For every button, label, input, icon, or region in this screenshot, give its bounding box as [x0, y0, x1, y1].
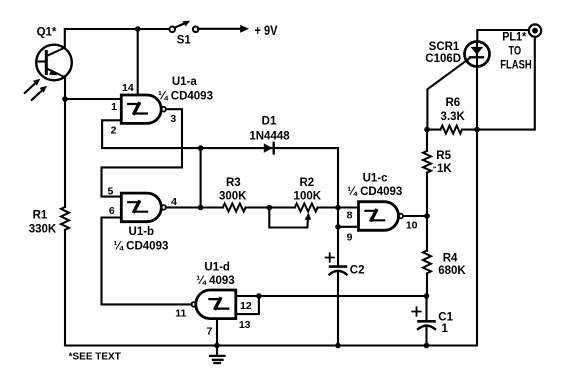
wire: R4 to C1 node — [426, 274, 428, 297]
svg-text:100K: 100K — [294, 190, 322, 202]
wiper arrow of R2 — [305, 213, 312, 220]
junction: cathode / R6 / PL1 node — [474, 127, 480, 133]
resistor R3 — [223, 204, 246, 212]
wire: R2 to pin 8 node — [318, 206, 338, 208]
junction: R4 / C1 / pin12-13 node — [424, 293, 430, 299]
svg-text:12: 12 — [240, 300, 252, 312]
resistor R4 — [423, 251, 431, 274]
junction: Q1 emitter / U1-a pin1 — [62, 96, 68, 102]
wire: pin 7 to ground — [216, 319, 218, 355]
svg-text:SCR1: SCR1 — [429, 41, 460, 53]
resistor R5 — [423, 151, 431, 173]
junction: R6 left node — [424, 127, 430, 133]
plus sign C2 — [326, 253, 334, 261]
wire: R3 to R2 — [246, 206, 295, 208]
op-amp U1-d NAND gate (mirrored) — [196, 290, 236, 319]
svg-text:13: 13 — [239, 319, 251, 331]
svg-text:FLASH: FLASH — [500, 59, 532, 71]
light arrow 1 into Q1 — [25, 79, 41, 93]
wire: pins 12/13 tie — [236, 296, 259, 314]
svg-text:6: 6 — [109, 205, 115, 217]
wire: R1 to bottom rail — [64, 230, 66, 346]
diode D1 wire — [201, 147, 338, 149]
svg-text:C2: C2 — [350, 265, 365, 277]
svg-text:U1-b: U1-b — [129, 226, 155, 238]
junction: output 10 node — [424, 213, 430, 219]
svg-text:Q1*: Q1* — [37, 26, 57, 38]
svg-text:¼ CD4093: ¼ CD4093 — [113, 240, 168, 252]
svg-text:4: 4 — [171, 196, 177, 208]
svg-text:R6: R6 — [445, 97, 460, 109]
wire: +9V top rail from Q1 collector to S1 — [65, 29, 169, 48]
resistor R2 (rheostat) — [295, 204, 318, 212]
wire: SCR cathode rail down right side — [476, 67, 478, 346]
wire: node to R3 — [201, 206, 223, 208]
junction: output 4 node — [198, 205, 204, 211]
schmitt symbol U1-d — [209, 299, 228, 309]
wire: pin 14 supply drop to U1-a — [137, 29, 139, 95]
wire: C2 to bottom rail — [337, 273, 339, 346]
wire: PL1 sleeve return — [477, 37, 535, 130]
svg-text:¼ 4093: ¼ 4093 — [196, 275, 234, 287]
junction: top rail / pin14 — [135, 26, 141, 32]
svg-text:R2: R2 — [299, 177, 314, 189]
wire: D1 cathode down to R2 line — [337, 148, 339, 207]
wire: pin8 node down to pin 9 and C2 — [337, 208, 339, 266]
plus sign C1 — [412, 307, 420, 315]
switch S1 — [169, 21, 198, 32]
schmitt symbol U1-a — [128, 104, 147, 114]
svg-text:1K: 1K — [437, 163, 452, 175]
junction: pin 7 at bottom rail — [214, 343, 220, 349]
resistor R1 — [61, 207, 69, 230]
svg-text:3: 3 — [170, 113, 176, 125]
wire: U1-a output 3 to U1-b pin 5 — [102, 109, 183, 196]
wire: U1-a pin 2 feedback — [102, 120, 201, 148]
wire: R6 node to zigzag — [427, 129, 441, 131]
svg-text:14: 14 — [122, 82, 134, 94]
svg-text:R4: R4 — [443, 252, 458, 264]
op-amp U1-b NAND gate — [121, 193, 161, 222]
svg-text:¼ CD4093: ¼ CD4093 — [347, 186, 402, 198]
transistor Q1 phototransistor — [36, 45, 72, 81]
svg-text:2: 2 — [111, 124, 117, 136]
svg-text:3.3K: 3.3K — [441, 111, 466, 123]
svg-text:1N4448: 1N4448 — [249, 130, 290, 142]
wire: pin 8 stub — [338, 206, 359, 208]
svg-text:¼ CD4093: ¼ CD4093 — [158, 90, 213, 102]
svg-text:+ 9V: + 9V — [255, 22, 279, 38]
svg-text:8: 8 — [347, 210, 353, 222]
svg-text:1: 1 — [111, 101, 117, 113]
schmitt symbol U1-c — [365, 211, 384, 221]
wire: pin 9 stub — [338, 226, 359, 228]
svg-text:680K: 680K — [438, 265, 466, 277]
bubble U1-a output — [161, 107, 166, 112]
svg-text:U1-d: U1-d — [204, 262, 230, 274]
wire: R6 to cathode node — [462, 129, 477, 131]
svg-text:S1: S1 — [177, 34, 192, 46]
op-amp U1-c NAND gate — [359, 202, 399, 231]
wire: C1 leads — [425, 296, 427, 320]
junction: feedback node at D1 line — [198, 145, 204, 151]
wire: output 10 node down to R4 — [426, 216, 428, 251]
svg-text:R1: R1 — [33, 210, 48, 222]
op-amp U1-a NAND gate — [121, 95, 161, 123]
svg-text:11: 11 — [175, 308, 186, 320]
ground — [210, 356, 225, 363]
svg-text:1: 1 — [442, 323, 449, 335]
bubble U1-d output — [191, 302, 196, 307]
svg-text:C106D: C106D — [425, 53, 461, 65]
junction: pin 8 node — [335, 205, 341, 211]
svg-text:*SEE TEXT: *SEE TEXT — [69, 351, 121, 362]
wire: R2 wiper return loop — [269, 208, 308, 228]
junction: pin 12/13 node — [256, 293, 262, 299]
svg-text:PL1*: PL1* — [502, 32, 526, 44]
svg-text:9: 9 — [347, 232, 353, 244]
svg-text:330K: 330K — [29, 224, 57, 236]
wire: bottom ground rail — [65, 344, 477, 346]
svg-text:U1-c: U1-c — [363, 172, 389, 184]
wire: SCR anode to PL1 — [477, 30, 529, 42]
wire: pin 12/13 node to R4/C1 node — [259, 295, 427, 297]
connector PL1 — [529, 24, 541, 36]
wire: U1-b output 4 to node — [166, 206, 201, 208]
wire: R5 to output 10 node — [426, 173, 428, 216]
svg-text:U1-a: U1-a — [172, 76, 198, 88]
junction: C1 at bottom rail — [424, 343, 430, 349]
wire: SCR gate diagonal — [427, 58, 470, 130]
wire: R5 chain from R6 node to output 10 node — [426, 130, 428, 151]
svg-text:7: 7 — [206, 326, 212, 338]
light arrow 2 into Q1 — [32, 86, 47, 100]
wire: emitter node to U1-a pin 1 — [65, 98, 121, 100]
wire: feedback vertical to U1-b output 4 — [200, 148, 202, 207]
thyristor SCR1 — [465, 42, 490, 67]
diode D1 — [264, 143, 274, 154]
junction: pin 9 node — [335, 224, 341, 230]
svg-text:TO: TO — [509, 45, 522, 57]
junction: C2 at bottom rail — [335, 343, 341, 349]
bubble U1-b output — [161, 205, 166, 210]
bubble U1-c output — [399, 214, 404, 219]
svg-text:C1: C1 — [438, 312, 453, 324]
junction: wiper tap node — [267, 205, 273, 211]
schmitt symbol U1-b — [128, 202, 147, 212]
svg-text:10: 10 — [406, 220, 418, 232]
svg-text:D1: D1 — [262, 115, 277, 127]
wire: S1 to +9V arrow — [198, 28, 241, 30]
svg-text:R3: R3 — [226, 177, 241, 189]
wire: Q1 emitter down the left rail — [64, 77, 66, 207]
svg-text:300K: 300K — [219, 190, 247, 202]
wire: U1-c output 10 — [403, 215, 427, 217]
wire: U1-b pin 6 from U1-d output 11 — [102, 218, 192, 305]
capacitor C2 — [330, 267, 347, 275]
svg-text:5: 5 — [107, 186, 113, 198]
resistor R6 — [441, 126, 463, 134]
svg-text:R5: R5 — [436, 150, 451, 162]
capacitor C1 — [418, 321, 435, 329]
